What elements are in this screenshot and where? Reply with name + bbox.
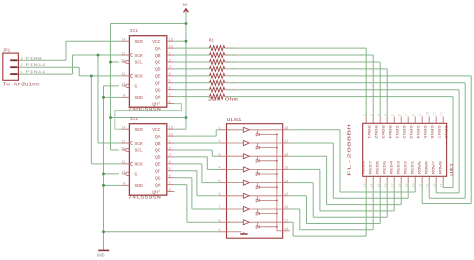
svg-text:7: 7 — [169, 182, 171, 186]
svg-text:QF: QF — [155, 80, 161, 86]
svg-text:ROW6: ROW6 — [426, 161, 430, 175]
svg-text:RED2: RED2 — [405, 161, 409, 175]
svg-text:ROW1: ROW1 — [366, 125, 370, 139]
svg-text:7: 7 — [169, 94, 171, 98]
svg-text:11: 11 — [284, 219, 288, 223]
svg-text:6: 6 — [398, 114, 402, 116]
svg-text:GRN8: GRN8 — [443, 125, 447, 139]
svg-text:PIN11: PIN11 — [26, 71, 47, 75]
svg-text:PIN12: PIN12 — [26, 64, 47, 68]
svg-text:19: 19 — [405, 183, 409, 187]
svg-text:15: 15 — [284, 167, 288, 171]
svg-text:GND: GND — [97, 254, 105, 258]
svg-text:QC: QC — [155, 148, 161, 154]
svg-text:5: 5 — [169, 168, 171, 172]
svg-text:G: G — [135, 172, 138, 178]
svg-text:3: 3 — [218, 153, 220, 157]
svg-text:15: 15 — [169, 45, 173, 49]
svg-text:ROW7: ROW7 — [433, 161, 437, 175]
svg-text:GRN5: GRN5 — [422, 125, 426, 139]
svg-text:2: 2 — [370, 114, 374, 116]
svg-text:2: 2 — [169, 59, 171, 63]
svg-text:12: 12 — [284, 206, 288, 210]
svg-text:ROW2: ROW2 — [373, 125, 377, 139]
svg-text:RED5: RED5 — [384, 161, 388, 175]
svg-text:To Arduino: To Arduino — [3, 82, 41, 87]
svg-text:IC1: IC1 — [130, 28, 138, 34]
svg-text:RED4: RED4 — [391, 161, 395, 175]
svg-text:RCK: RCK — [135, 74, 144, 80]
svg-text:1: 1 — [21, 71, 23, 75]
svg-text:74HC595N: 74HC595N — [128, 107, 162, 112]
svg-text:8: 8 — [218, 219, 220, 223]
svg-text:RED6: RED6 — [377, 161, 381, 175]
svg-text:13: 13 — [121, 83, 125, 87]
svg-text:R1: R1 — [209, 40, 215, 44]
svg-text:13: 13 — [284, 193, 288, 197]
svg-text:VCC: VCC — [152, 127, 161, 133]
svg-text:GRN1: GRN1 — [394, 125, 398, 139]
svg-text:74LS595N: 74LS595N — [128, 195, 162, 200]
svg-text:U$1: U$1 — [450, 162, 455, 176]
svg-text:10: 10 — [426, 112, 430, 116]
svg-text:RED3: RED3 — [398, 161, 402, 175]
svg-text:QB: QB — [155, 53, 161, 59]
svg-text:6: 6 — [169, 175, 171, 179]
svg-text:QG: QG — [155, 175, 161, 181]
svg-text:SCL: SCL — [135, 60, 144, 66]
svg-text:FL-2088BH: FL-2088BH — [348, 123, 352, 176]
svg-text:10: 10 — [121, 59, 125, 63]
svg-text:RED7: RED7 — [370, 161, 374, 175]
svg-text:RCK: RCK — [135, 162, 144, 168]
svg-text:12: 12 — [440, 112, 444, 116]
svg-text:5: 5 — [169, 80, 171, 84]
svg-text:QH: QH — [155, 94, 161, 100]
svg-text:ROW3: ROW3 — [380, 125, 384, 139]
svg-text:QA: QA — [155, 46, 161, 52]
svg-text:15: 15 — [377, 183, 381, 187]
svg-text:SCK: SCK — [135, 141, 144, 147]
svg-text:ROW4: ROW4 — [387, 125, 391, 139]
svg-text:7: 7 — [405, 114, 409, 116]
svg-text:220 Ohm: 220 Ohm — [226, 46, 238, 50]
svg-text:GND: GND — [135, 183, 144, 189]
svg-text:220 Ohm: 220 Ohm — [226, 53, 238, 57]
svg-text:ROW8: ROW8 — [440, 161, 444, 175]
svg-text:5: 5 — [391, 114, 395, 116]
svg-text:9: 9 — [419, 114, 423, 116]
svg-text:SER: SER — [135, 127, 144, 133]
svg-text:10: 10 — [284, 228, 288, 232]
svg-text:11: 11 — [121, 140, 126, 144]
svg-text:QF: QF — [155, 168, 161, 174]
svg-text:6: 6 — [169, 87, 171, 91]
svg-text:GND: GND — [135, 95, 144, 101]
svg-text:24: 24 — [440, 183, 444, 187]
svg-text:QA: QA — [155, 134, 161, 140]
svg-text:RED1: RED1 — [412, 161, 416, 175]
svg-text:4: 4 — [218, 167, 220, 171]
svg-text:2: 2 — [21, 64, 23, 68]
svg-text:13: 13 — [363, 183, 367, 187]
svg-text:10: 10 — [121, 147, 125, 151]
svg-text:SER: SER — [135, 39, 144, 45]
svg-text:3: 3 — [169, 66, 171, 70]
svg-text:14: 14 — [284, 180, 288, 184]
svg-text:21: 21 — [419, 183, 423, 187]
svg-text:220 Ohm: 220 Ohm — [208, 97, 239, 102]
svg-text:8: 8 — [123, 183, 125, 187]
svg-text:ULN1: ULN1 — [227, 119, 243, 123]
svg-text:17: 17 — [284, 140, 288, 144]
svg-text:SCK: SCK — [135, 53, 144, 59]
svg-text:20: 20 — [412, 183, 416, 187]
svg-text:23: 23 — [433, 183, 437, 187]
svg-text:220 Ohm: 220 Ohm — [226, 74, 238, 78]
svg-text:1: 1 — [363, 114, 367, 116]
svg-text:QD: QD — [155, 67, 161, 73]
svg-text:QD: QD — [155, 155, 161, 161]
svg-text:QE: QE — [155, 162, 161, 168]
svg-text:3: 3 — [377, 114, 381, 116]
svg-text:1: 1 — [218, 127, 220, 131]
svg-text:QH: QH — [155, 182, 161, 188]
svg-text:8: 8 — [412, 114, 416, 116]
svg-text:GRN7: GRN7 — [436, 125, 440, 139]
svg-text:RED8: RED8 — [363, 161, 367, 175]
svg-text:12: 12 — [121, 161, 125, 165]
svg-text:5V: 5V — [183, 4, 188, 8]
svg-text:GRN2: GRN2 — [401, 125, 405, 139]
svg-text:GRN3: GRN3 — [408, 125, 412, 139]
svg-text:22: 22 — [426, 183, 430, 187]
svg-text:GRN4: GRN4 — [415, 125, 419, 139]
svg-text:JP1: JP1 — [3, 50, 11, 54]
svg-text:G: G — [135, 84, 138, 90]
svg-text:14: 14 — [121, 39, 126, 43]
svg-text:8: 8 — [123, 95, 125, 99]
svg-text:12: 12 — [121, 73, 125, 77]
svg-text:4: 4 — [384, 114, 388, 116]
svg-text:IC2: IC2 — [130, 116, 138, 122]
svg-text:6: 6 — [218, 193, 220, 197]
svg-text:QB: QB — [155, 141, 161, 147]
svg-text:3: 3 — [21, 57, 23, 61]
svg-text:SCL: SCL — [135, 148, 144, 154]
svg-text:QH*: QH* — [152, 189, 161, 195]
svg-text:PIN8: PIN8 — [26, 57, 43, 61]
svg-text:13: 13 — [121, 171, 125, 175]
svg-text:9: 9 — [169, 101, 171, 105]
svg-text:9: 9 — [218, 229, 220, 233]
svg-text:220 Ohm: 220 Ohm — [226, 88, 238, 92]
svg-text:18: 18 — [284, 127, 288, 131]
svg-text:7: 7 — [218, 206, 220, 210]
svg-text:9: 9 — [169, 189, 171, 193]
svg-text:GRN6: GRN6 — [429, 125, 433, 139]
svg-text:ROW5: ROW5 — [419, 161, 423, 175]
svg-text:QC: QC — [155, 60, 161, 66]
svg-text:VCC: VCC — [152, 39, 161, 45]
svg-text:5: 5 — [218, 180, 220, 184]
svg-text:16: 16 — [384, 183, 388, 187]
svg-text:2: 2 — [218, 140, 220, 144]
svg-text:220 Ohm: 220 Ohm — [226, 81, 238, 85]
svg-text:17: 17 — [391, 183, 395, 187]
svg-text:16: 16 — [284, 153, 288, 157]
svg-text:11: 11 — [433, 112, 437, 116]
svg-text:14: 14 — [370, 183, 374, 187]
svg-text:11: 11 — [121, 52, 126, 56]
svg-text:18: 18 — [398, 183, 402, 187]
svg-text:220 Ohm: 220 Ohm — [226, 67, 238, 71]
svg-text:16: 16 — [169, 127, 173, 131]
svg-text:14: 14 — [121, 127, 126, 131]
svg-text:15: 15 — [169, 133, 173, 137]
svg-text:QG: QG — [155, 87, 161, 93]
svg-text:16: 16 — [169, 39, 173, 43]
svg-text:220 Ohm: 220 Ohm — [226, 60, 238, 64]
svg-text:2: 2 — [169, 147, 171, 151]
svg-text:QE: QE — [155, 74, 161, 80]
svg-text:QH*: QH* — [152, 101, 161, 107]
svg-text:3: 3 — [169, 154, 171, 158]
